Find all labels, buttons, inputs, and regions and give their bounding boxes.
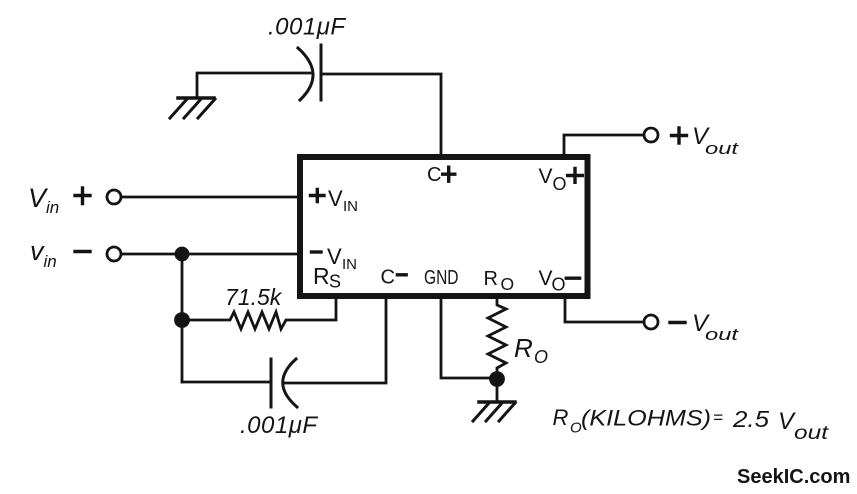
svg-text:(KILOHMS): (KILOHMS)	[581, 406, 711, 431]
svg-text:S: S	[329, 272, 341, 292]
svg-text:R: R	[313, 263, 330, 289]
svg-text:GND: GND	[424, 267, 459, 289]
svg-text:V: V	[328, 186, 343, 211]
svg-text:O: O	[501, 274, 515, 294]
svg-text:vin: vin	[30, 236, 57, 271]
svg-text:2.5: 2.5	[732, 406, 769, 432]
svg-text:O: O	[553, 174, 567, 194]
svg-text:out: out	[794, 423, 829, 444]
svg-text:O: O	[552, 275, 566, 295]
svg-text:R: R	[514, 333, 533, 363]
svg-text:IN: IN	[342, 256, 357, 273]
svg-text:.001μF: .001μF	[268, 14, 346, 41]
svg-text:71.5k: 71.5k	[225, 284, 283, 310]
svg-text:C: C	[381, 267, 395, 289]
svg-text:O: O	[534, 347, 548, 367]
svg-text:out: out	[705, 325, 740, 344]
svg-text:R: R	[484, 268, 498, 290]
svg-text:=: =	[713, 408, 723, 427]
svg-text:Vin: Vin	[28, 183, 59, 217]
svg-text:V: V	[539, 267, 553, 290]
svg-text:V: V	[539, 165, 553, 188]
svg-text:R: R	[553, 405, 569, 430]
svg-text:.001μF: .001μF	[240, 412, 318, 439]
svg-text:SeekIC.com: SeekIC.com	[737, 466, 850, 488]
svg-text:C: C	[427, 164, 441, 186]
svg-text:IN: IN	[343, 198, 358, 215]
svg-text:out: out	[705, 139, 740, 158]
